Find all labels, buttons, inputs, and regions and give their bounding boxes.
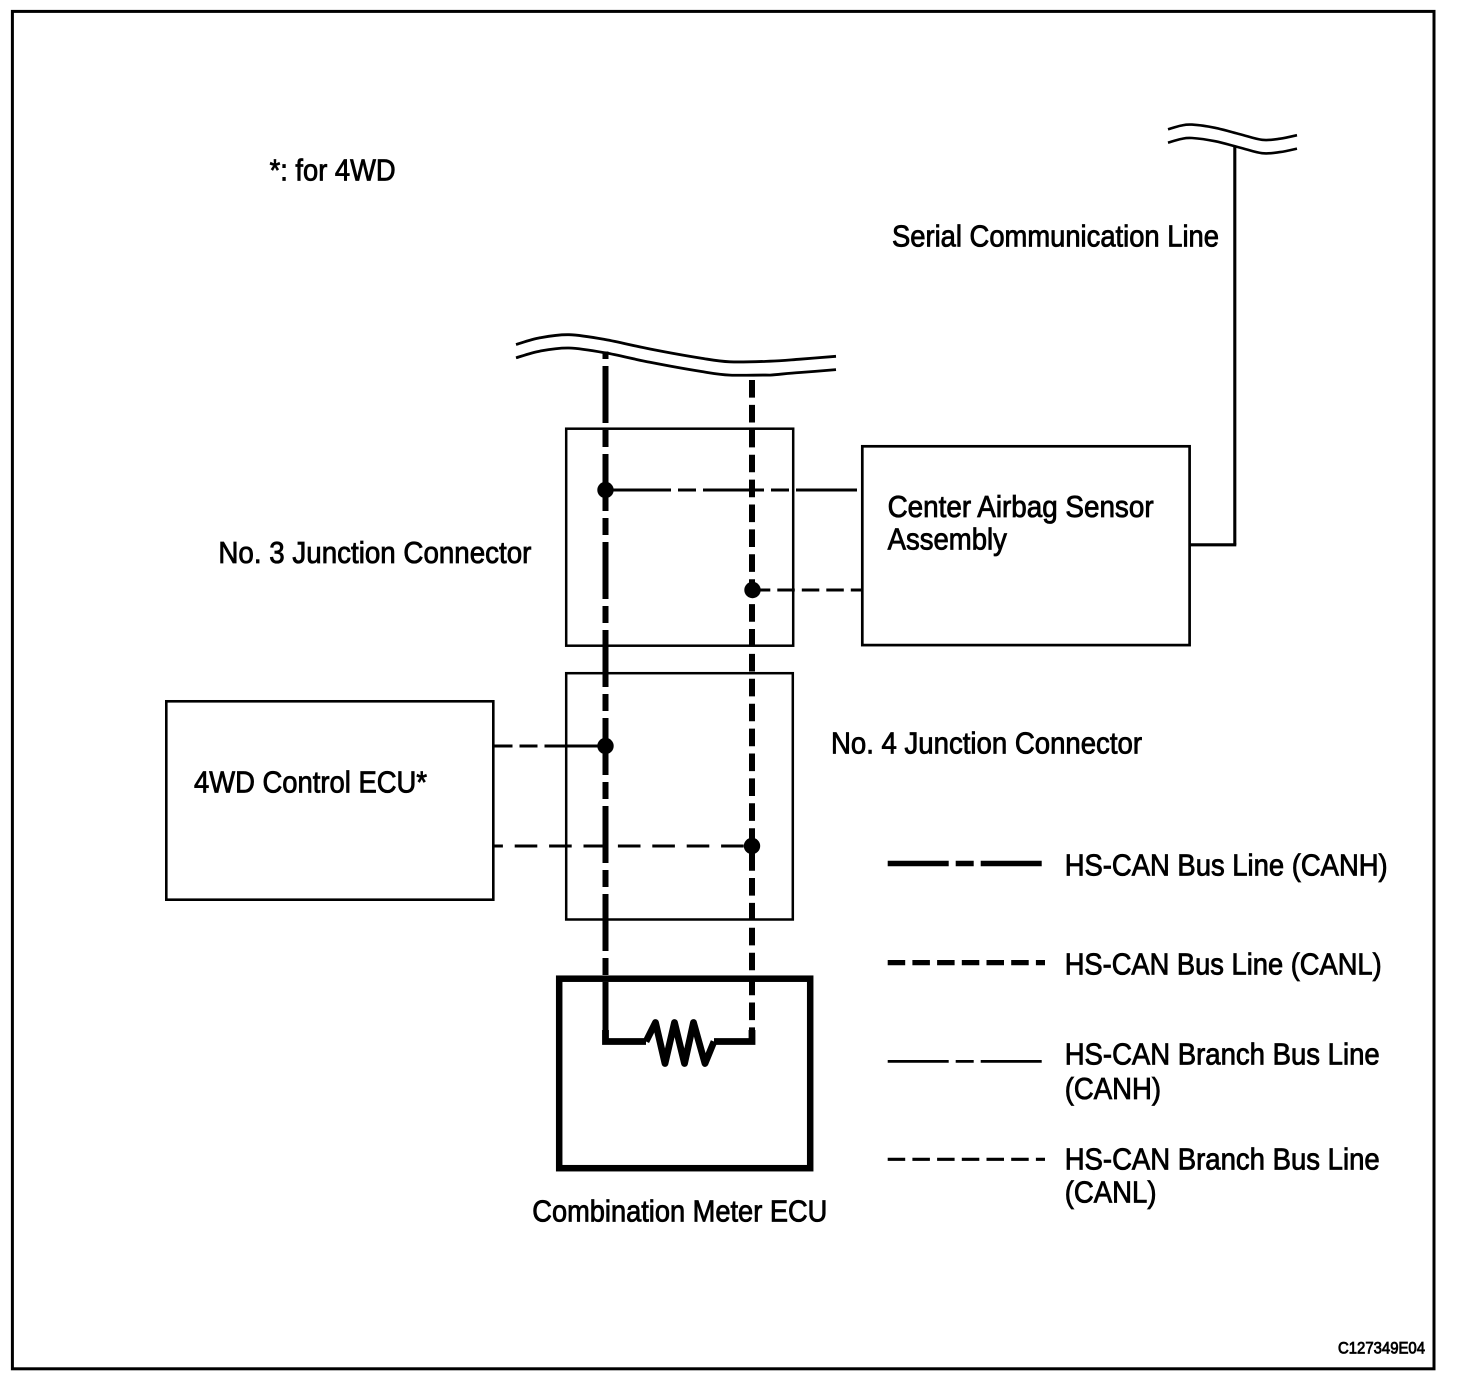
svg-text:Assembly: Assembly — [888, 522, 1008, 557]
svg-text:HS-CAN Branch Bus Line: HS-CAN Branch Bus Line — [1065, 1037, 1380, 1072]
svg-text:4WD Control ECU*: 4WD Control ECU* — [194, 764, 427, 799]
wire: HS-CAN bus line CANH (vertical) — [603, 352, 609, 1042]
connector J3: No. 3 Junction Connector box — [566, 429, 793, 646]
node: CANL junction in No. 3 connector — [744, 582, 760, 598]
svg-text:*: for 4WD: *: for 4WD — [270, 152, 396, 187]
svg-text:No. 4 Junction Connector: No. 4 Junction Connector — [831, 726, 1142, 761]
svg-text:HS-CAN Bus Line (CANL): HS-CAN Bus Line (CANL) — [1065, 946, 1382, 981]
legend sample: HS-CAN Branch Bus Line (CANH) — [888, 1060, 1043, 1063]
svg-text:Serial Communication Line: Serial Communication Line — [892, 219, 1219, 254]
legend label: HS-CAN Bus Line (CANH) — [1065, 848, 1388, 883]
node: CANH junction in No. 4 connector — [597, 738, 613, 754]
label: figure number C127349E04 — [1338, 1339, 1425, 1358]
ECU U3: Combination Meter ECU box (terminating) — [559, 979, 810, 1168]
node: CANL junction in No. 4 connector — [744, 838, 760, 854]
svg-text:HS-CAN Branch Bus Line: HS-CAN Branch Bus Line — [1065, 1141, 1380, 1176]
svg-text:C127349E04: C127349E04 — [1338, 1339, 1425, 1358]
legend label: HS-CAN Branch Bus Line (CANL) — [1065, 1141, 1380, 1209]
break symbol (top right, serial line) — [1168, 124, 1297, 153]
ECU U1: Center Airbag Sensor Assembly box — [862, 446, 1189, 645]
wire: serial communication line (vertical) — [1233, 146, 1236, 545]
wire: HS-CAN bus line CANL (vertical) — [749, 380, 755, 1040]
svg-text:Center Airbag Sensor: Center Airbag Sensor — [888, 489, 1154, 524]
connector J4: No. 4 Junction Connector box — [566, 673, 793, 919]
legend label: HS-CAN Bus Line (CANL) — [1065, 946, 1382, 981]
label: No. 4 Junction Connector — [831, 726, 1142, 761]
legend sample: HS-CAN Branch Bus Line (CANL) — [888, 1158, 1045, 1161]
label: Combination Meter ECU — [532, 1193, 827, 1228]
wire: serial line to Center Airbag Sensor Assembly — [1190, 543, 1237, 546]
break symbol (left, CAN bus) — [516, 335, 836, 376]
label: Center Airbag Sensor Assembly — [888, 489, 1154, 557]
label: No. 3 Junction Connector — [218, 535, 531, 570]
label: Serial Communication Line — [892, 219, 1219, 254]
resistor R (terminating resistor inside Combination Meter ECU) — [606, 1023, 753, 1064]
wire: HS-CAN branch bus line CANL to Center Airbag Sensor — [753, 589, 862, 592]
svg-text:HS-CAN Bus Line (CANH): HS-CAN Bus Line (CANH) — [1065, 848, 1388, 883]
legend sample: HS-CAN Bus Line (CANL) — [888, 960, 1045, 965]
svg-text:(CANL): (CANL) — [1065, 1175, 1157, 1210]
node: CANH junction in No. 3 connector — [597, 482, 613, 498]
svg-text:(CANH): (CANH) — [1065, 1071, 1161, 1106]
legend sample: HS-CAN Bus Line (CANH) — [888, 861, 1043, 866]
note: for 4WD — [270, 152, 396, 187]
svg-text:Combination Meter ECU: Combination Meter ECU — [532, 1193, 827, 1228]
wire: HS-CAN branch bus line CANH to 4WD Control ECU — [494, 745, 606, 748]
wire: HS-CAN branch bus line CANL to 4WD Control ECU — [494, 845, 752, 848]
legend label: HS-CAN Branch Bus Line (CANH) — [1065, 1037, 1380, 1107]
svg-text:No. 3 Junction Connector: No. 3 Junction Connector — [218, 535, 531, 570]
ECU U2: 4WD Control ECU box — [166, 701, 493, 899]
wire: HS-CAN branch bus line CANH to Center Airbag Sensor — [606, 489, 862, 492]
label: 4WD Control ECU* — [194, 764, 427, 799]
